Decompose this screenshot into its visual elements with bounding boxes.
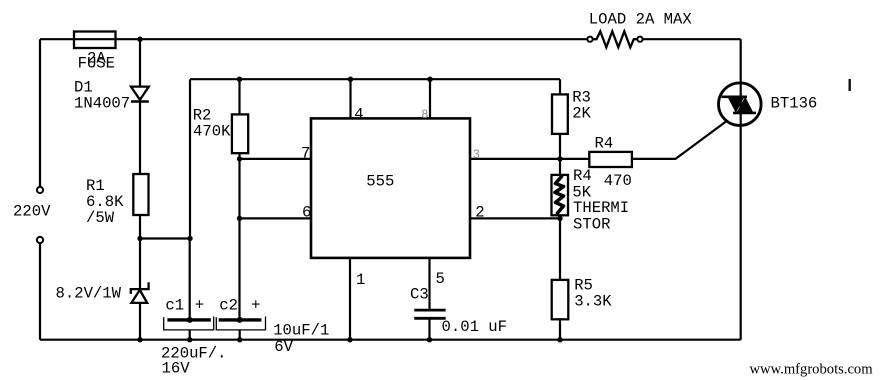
resistor R1 6.8K/5W — [86, 174, 149, 227]
svg-text:470: 470 — [604, 172, 632, 190]
node rail-pin8 junction — [427, 77, 432, 82]
node 220V terminal bottom — [37, 237, 43, 243]
svg-text:R4: R4 — [573, 167, 592, 185]
svg-text:+: + — [251, 297, 260, 315]
wire pin1 — [349, 258, 351, 340]
svg-text:1: 1 — [356, 271, 365, 289]
svg-text:6V: 6V — [274, 338, 293, 356]
svg-text:3: 3 — [473, 147, 480, 161]
pin 5 label — [436, 270, 445, 288]
svg-text:5: 5 — [436, 270, 445, 288]
svg-text:470K: 470K — [193, 123, 231, 141]
triac Q1 BT136 — [719, 83, 818, 126]
node ground C2 — [237, 337, 242, 342]
svg-text:/5W: /5W — [86, 209, 115, 227]
wire supply junction horizontal — [140, 237, 190, 239]
node ground R5 — [557, 337, 562, 342]
svg-text:4: 4 — [354, 105, 363, 123]
svg-text:555: 555 — [366, 173, 394, 191]
wire pin5 / C3 branch — [428, 258, 430, 340]
wire R4 gate connection — [560, 122, 726, 159]
capacitor C2 10uF/16V — [216, 297, 329, 357]
node rail-pin4 junction — [348, 77, 353, 82]
svg-text:R4: R4 — [595, 135, 614, 153]
node ground C1 — [187, 337, 192, 342]
watermark www.mfgrobots.com — [750, 361, 874, 377]
wire pin7 — [240, 158, 312, 160]
svg-text:c1: c1 — [165, 297, 184, 315]
svg-text:BT136: BT136 — [771, 95, 818, 113]
svg-text:8: 8 — [422, 107, 429, 121]
svg-text:16V: 16V — [162, 360, 191, 378]
load resistor LOAD 2A MAX — [587, 11, 692, 48]
pin 1 label — [356, 271, 365, 289]
wire pin8 — [429, 79, 431, 118]
svg-text:c2: c2 — [219, 297, 238, 315]
wire R3 thermistor R5 branch — [559, 79, 561, 340]
wire left vertical upper — [39, 39, 41, 187]
node 220V terminal top — [37, 187, 43, 193]
node rail-R2 junction — [237, 77, 242, 82]
node ground C3 — [427, 337, 432, 342]
svg-text:THERMI: THERMI — [573, 199, 629, 217]
svg-text:2: 2 — [475, 204, 484, 222]
node pin3-R3 junction — [557, 156, 562, 161]
wire D1 branch — [139, 39, 141, 340]
svg-text:10uF/1: 10uF/1 — [273, 321, 329, 339]
node pin2-thermistor junction — [557, 216, 562, 221]
node ground pin1 — [347, 337, 352, 342]
svg-text:+: + — [195, 297, 204, 315]
wire left vertical lower — [39, 243, 41, 340]
wire top rail left — [40, 38, 588, 40]
node pin6 junction — [237, 216, 242, 221]
svg-text:C3: C3 — [410, 285, 429, 303]
wire pin3 — [470, 158, 560, 160]
diode D1 1N4007 — [74, 79, 149, 113]
wire pin2 — [470, 217, 560, 219]
svg-text:2K: 2K — [572, 105, 591, 123]
wire inner top rail — [190, 78, 560, 80]
pin 3 label — [473, 147, 480, 161]
node ground D1 — [137, 337, 142, 342]
pin 7 label — [301, 145, 310, 163]
svg-text:220V: 220V — [13, 203, 51, 221]
fuse F1 2A — [74, 32, 116, 73]
node pin7 junction — [237, 156, 242, 161]
wire pin4 — [349, 79, 351, 118]
wire pin6 — [240, 217, 312, 219]
resistor R4 470 — [589, 135, 632, 190]
stray mark I — [849, 79, 851, 91]
capacitor C1 220uF/16V — [161, 297, 227, 378]
wire top rail right — [643, 38, 741, 40]
node fuse-D1 junction — [137, 37, 142, 42]
svg-text:8.2V/1W: 8.2V/1W — [56, 285, 122, 303]
svg-text:LOAD 2A MAX: LOAD 2A MAX — [589, 11, 693, 29]
node supply junction right — [187, 236, 192, 241]
resistor R3 2K — [552, 89, 592, 134]
wire inner left vertical / C1 branch — [189, 79, 192, 340]
svg-text:6: 6 — [302, 204, 311, 222]
svg-text:STOR: STOR — [573, 216, 610, 234]
node supply junction left — [137, 236, 142, 241]
svg-text:0.01 uF: 0.01 uF — [442, 318, 508, 336]
pin 4 label — [354, 105, 363, 123]
svg-text:7: 7 — [301, 145, 310, 163]
zener diode 8.2V/1W — [56, 282, 149, 303]
capacitor C3 0.01uF — [410, 285, 507, 336]
svg-text:1N4007: 1N4007 — [74, 95, 130, 113]
wire R2/C2 branch — [238, 79, 240, 340]
svg-text:www.mfgrobots.com: www.mfgrobots.com — [750, 361, 874, 377]
pin 6 label — [302, 204, 311, 222]
resistor R5 3.3K — [552, 276, 613, 319]
pin 8 label — [422, 107, 429, 121]
svg-text:FUSE: FUSE — [78, 55, 115, 73]
thermistor R4 5K — [552, 167, 630, 234]
wire right vertical — [740, 39, 742, 340]
resistor R2 470K — [193, 107, 249, 154]
pin 2 label — [475, 204, 484, 222]
svg-text:3.3K: 3.3K — [574, 292, 612, 310]
wire bottom rail — [40, 339, 741, 341]
label 220V — [13, 203, 51, 221]
op-amp/timer U1 555 — [311, 118, 470, 258]
